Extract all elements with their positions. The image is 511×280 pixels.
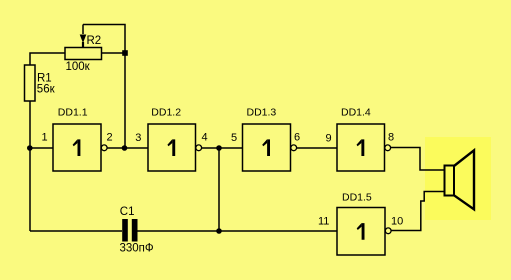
inverter DD1.1 bbox=[53, 107, 107, 172]
pin 11 bbox=[318, 216, 329, 228]
wire bbox=[391, 148, 445, 171]
svg-text:1: 1 bbox=[42, 132, 48, 144]
resistor R2 bbox=[65, 25, 102, 74]
inverter DD1.4 bbox=[337, 107, 391, 172]
pin 5 bbox=[231, 132, 237, 144]
svg-text:9: 9 bbox=[326, 133, 332, 145]
pin 3 bbox=[135, 132, 141, 144]
inverter DD1.2 bbox=[148, 107, 202, 172]
svg-text:5: 5 bbox=[231, 132, 237, 144]
wire bbox=[297, 147, 337, 149]
wire bbox=[107, 147, 148, 149]
svg-text:8: 8 bbox=[388, 132, 394, 144]
svg-text:DD1.2: DD1.2 bbox=[151, 107, 181, 119]
wire bbox=[218, 148, 220, 231]
wire bbox=[30, 147, 53, 149]
speaker BA1 bbox=[445, 150, 475, 209]
node junction R2 wiper bbox=[122, 50, 128, 56]
node junction between DD1.1 and DD1.2 bbox=[122, 145, 128, 151]
speaker highlight area bbox=[425, 137, 491, 220]
pin 8 bbox=[388, 132, 394, 144]
svg-text:C1: C1 bbox=[120, 206, 135, 218]
pin 10 bbox=[391, 216, 403, 228]
svg-text:R2: R2 bbox=[87, 35, 102, 47]
wire bbox=[29, 101, 31, 231]
wire bbox=[202, 147, 243, 149]
wire bbox=[102, 52, 126, 54]
svg-text:100к: 100к bbox=[66, 61, 91, 73]
node junction bottom wire bbox=[216, 228, 222, 234]
capacitor C1 bbox=[120, 206, 154, 255]
pin 4 bbox=[202, 132, 208, 144]
resistor R1 bbox=[25, 65, 56, 101]
pin 6 bbox=[294, 132, 300, 144]
pin 1 bbox=[42, 132, 48, 144]
wire bbox=[30, 230, 122, 232]
inverter DD1.3 bbox=[243, 107, 297, 172]
pin 2 bbox=[107, 132, 113, 144]
wire bbox=[30, 53, 65, 65]
svg-text:DD1.1: DD1.1 bbox=[58, 107, 88, 119]
svg-text:3: 3 bbox=[135, 132, 141, 144]
inverter DD1.5 bbox=[337, 192, 391, 256]
wire bbox=[83, 25, 125, 149]
svg-text:DD1.4: DD1.4 bbox=[341, 107, 371, 119]
svg-text:DD1.3: DD1.3 bbox=[247, 107, 277, 119]
wire bbox=[138, 230, 338, 232]
node junction DD1.1 input bbox=[27, 145, 33, 151]
svg-text:DD1.5: DD1.5 bbox=[342, 192, 372, 204]
node junction between DD1.2 and DD1.3 bbox=[216, 145, 222, 151]
pin 9 bbox=[326, 133, 332, 145]
svg-text:2: 2 bbox=[107, 132, 113, 144]
svg-text:4: 4 bbox=[202, 132, 208, 144]
svg-text:330пФ: 330пФ bbox=[120, 243, 154, 255]
svg-text:10: 10 bbox=[391, 216, 403, 228]
svg-text:11: 11 bbox=[318, 216, 329, 228]
svg-text:56к: 56к bbox=[37, 84, 56, 96]
svg-text:6: 6 bbox=[294, 132, 300, 144]
wire bbox=[391, 192, 444, 231]
